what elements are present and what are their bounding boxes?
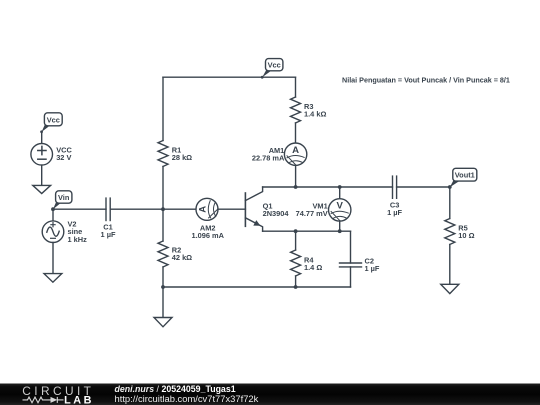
ammeter AM2 (rotated) [196, 198, 218, 220]
flag Vout1 [450, 168, 477, 187]
svg-text:22.78 mA: 22.78 mA [252, 153, 285, 162]
svg-text:42 kΩ: 42 kΩ [172, 253, 192, 262]
node Vout1 junction (C3 / R5) [448, 185, 452, 189]
svg-text:Vcc: Vcc [268, 61, 281, 70]
svg-text:1.096 mA: 1.096 mA [191, 231, 224, 240]
node VM1 bottom junction on emitter rail [338, 229, 342, 233]
wire C3 to Vout corner [397, 186, 450, 188]
svg-text:1.4 Ω: 1.4 Ω [304, 263, 322, 272]
wire collector column top (rail to R3) [295, 77, 297, 97]
svg-text:2N3904: 2N3904 [263, 209, 290, 218]
ground under V2 [44, 274, 62, 283]
svg-text:Vcc: Vcc [47, 115, 60, 124]
wire R2 bottom to bottom rail [162, 267, 164, 287]
svg-text:LAB: LAB [64, 394, 94, 405]
wire C2 bottom to bottom rail [350, 267, 352, 287]
svg-text:1 kHz: 1 kHz [68, 235, 88, 244]
voltmeter VM1 [329, 199, 351, 221]
svg-text:32 V: 32 V [56, 153, 71, 162]
wire emitter rail [263, 230, 351, 232]
node bottom rail / R2 / ground junction [161, 285, 165, 289]
ammeter AM1 [284, 143, 306, 165]
wire C1 to AM2 [110, 208, 196, 210]
wire R4 bottom stub [295, 276, 297, 287]
wire base rail: Vin junction to C1 [53, 208, 106, 210]
svg-text:1 µF: 1 µF [365, 264, 380, 273]
footer bar [0, 384, 540, 405]
wire AM2 to Q1 base [218, 208, 245, 210]
svg-text:10 Ω: 10 Ω [458, 231, 474, 240]
svg-text:Vout1: Vout1 [455, 171, 475, 180]
wire top rail from R1 column to R3 column [163, 76, 296, 78]
resistor R1 [158, 141, 168, 167]
CircuitLab logo [22, 384, 94, 405]
svg-text:V: V [336, 201, 343, 212]
wire Vout corner down to R5 [449, 187, 451, 219]
wire R3 to AM1 [295, 123, 297, 143]
node collector junction (AM1 / rail) [294, 185, 298, 189]
flag Vcc (on top rail) [261, 59, 283, 79]
resistor R3 [291, 97, 301, 123]
transistor Q1 [245, 187, 262, 231]
node R4 bottom on bottom rail [294, 285, 298, 289]
svg-text:A: A [292, 145, 299, 156]
ground under VCC [33, 185, 51, 193]
flag Vin [53, 191, 72, 209]
svg-text:Nilai Penguatan = Vout Puncak: Nilai Penguatan = Vout Puncak / Vin Punc… [342, 76, 510, 85]
wire C2 top stub [350, 231, 352, 263]
svg-text:1 µF: 1 µF [101, 230, 116, 239]
footer text [115, 384, 259, 404]
wire AM1 to collector node [295, 165, 297, 187]
node emitter junction (R4 top) [294, 229, 298, 233]
capacitor C2 [340, 263, 362, 267]
capacitor C1 [106, 198, 110, 220]
ground under bottom rail [162, 287, 164, 318]
svg-text:A: A [198, 206, 209, 213]
resistor R2 [158, 241, 168, 267]
node VM1 top junction on collector rail [338, 185, 342, 189]
wire R4 top stub [295, 231, 297, 250]
svg-text:http://circuitlab.com/cv7t77x3: http://circuitlab.com/cv7t77x37f72k [115, 393, 259, 404]
resistor R5 [445, 219, 455, 245]
flag Vcc (on VCC source) [40, 113, 62, 133]
svg-text:1.4 kΩ: 1.4 kΩ [304, 110, 326, 119]
wire left column top (rail to R1) [162, 77, 164, 140]
node Vin junction (V2 top / C1) [51, 207, 55, 211]
wire R1 bottom to base-rail junction [162, 167, 164, 210]
wire VM1 bottom stub [339, 221, 341, 231]
svg-text:74.77 mV: 74.77 mV [296, 209, 328, 218]
svg-text:1 µF: 1 µF [387, 208, 402, 217]
voltage source VCC [31, 132, 53, 185]
wire VM1 top stub [339, 187, 341, 199]
node R1/R2 divider junction on base rail [161, 207, 165, 211]
wire R2 top from junction [162, 209, 164, 241]
wire collector rail Q1 to C3 [263, 186, 393, 188]
ground under R5 [441, 284, 459, 293]
capacitor C3 [393, 176, 397, 198]
voltage source V2 (sine) [42, 209, 64, 273]
resistor R4 [291, 250, 301, 276]
wire R5 to ground [449, 245, 451, 285]
svg-text:Vin: Vin [58, 193, 70, 202]
wire bottom rail [163, 286, 351, 288]
svg-text:28 kΩ: 28 kΩ [172, 153, 192, 162]
